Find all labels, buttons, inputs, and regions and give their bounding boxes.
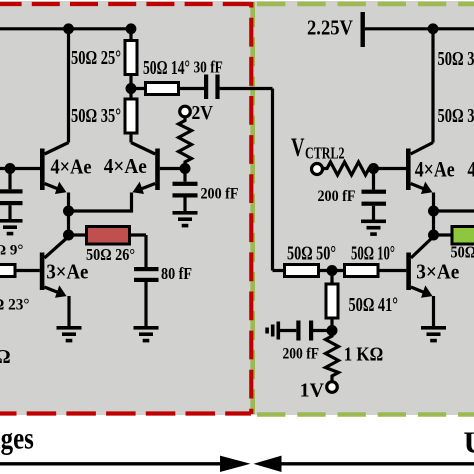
svg-text:50Ω 23°: 50Ω 23° bbox=[0, 297, 30, 314]
svg-text:50Ω 35°: 50Ω 35° bbox=[71, 105, 121, 127]
svg-text:80 fF: 80 fF bbox=[161, 264, 192, 283]
svg-text:4×Ae: 4×Ae bbox=[415, 158, 455, 182]
svg-text:2.25V: 2.25V bbox=[307, 16, 353, 40]
svg-text:4×Ae: 4×Ae bbox=[104, 154, 147, 178]
svg-text:30 fF: 30 fF bbox=[194, 58, 223, 77]
svg-text:50Ω 41°: 50Ω 41° bbox=[349, 294, 399, 316]
svg-text:1 KΩ: 1 KΩ bbox=[0, 346, 11, 368]
svg-text:50Ω 35°: 50Ω 35° bbox=[438, 105, 474, 127]
svg-text:200 fF: 200 fF bbox=[283, 346, 320, 363]
svg-text:3×Ae: 3×Ae bbox=[416, 260, 459, 284]
svg-text:50Ω 50°: 50Ω 50° bbox=[287, 243, 336, 265]
svg-text:50Ω 26°: 50Ω 26° bbox=[451, 243, 474, 262]
svg-text:stages: stages bbox=[0, 421, 34, 456]
svg-text:200 fF: 200 fF bbox=[201, 185, 239, 202]
svg-text:50Ω 25°: 50Ω 25° bbox=[71, 47, 121, 69]
svg-text:4×Ae: 4×Ae bbox=[467, 158, 474, 182]
svg-text:CTRL2: CTRL2 bbox=[305, 144, 345, 163]
svg-text:200 fF: 200 fF bbox=[318, 188, 356, 205]
svg-text:50Ω 26°: 50Ω 26° bbox=[86, 245, 135, 264]
svg-text:3×Ae: 3×Ae bbox=[46, 260, 88, 284]
svg-text:4×Ae: 4×Ae bbox=[51, 154, 92, 178]
svg-text:1V: 1V bbox=[300, 381, 324, 402]
svg-text:1 KΩ: 1 KΩ bbox=[344, 344, 384, 366]
svg-text:50Ω 9°: 50Ω 9° bbox=[0, 243, 23, 259]
svg-text:50Ω 10°: 50Ω 10° bbox=[351, 243, 395, 265]
svg-text:2V: 2V bbox=[192, 102, 214, 124]
svg-text:V: V bbox=[291, 133, 305, 162]
svg-text:50Ω 14°: 50Ω 14° bbox=[143, 58, 190, 79]
svg-text:Up: Up bbox=[464, 424, 474, 459]
svg-text:50Ω 30°: 50Ω 30° bbox=[438, 48, 474, 70]
